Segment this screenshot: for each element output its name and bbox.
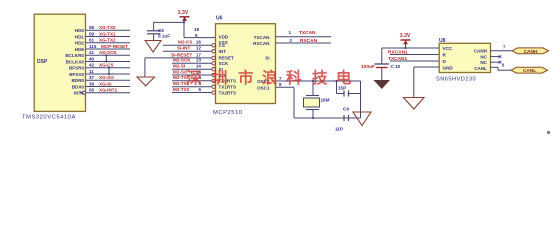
svg-text:MCP2510: MCP2510 bbox=[213, 110, 243, 116]
svg-text:HD0: HD0 bbox=[75, 28, 85, 33]
wire DSP pin BCLKR0 stub / net AD-SCK bbox=[86, 50, 131, 55]
svg-text:浪: 浪 bbox=[262, 68, 278, 87]
ground (under C6, open triangle) bbox=[145, 41, 161, 53]
svg-text:BCLKR0: BCLKR0 bbox=[65, 53, 84, 58]
svg-text:CANH: CANH bbox=[474, 48, 488, 53]
svg-text:XG-TX2: XG-TX2 bbox=[99, 38, 116, 43]
svg-text:INT1: INT1 bbox=[74, 91, 84, 96]
svg-text:RXCAN1: RXCAN1 bbox=[388, 49, 408, 55]
svg-text:3.3V: 3.3V bbox=[178, 10, 189, 16]
capacitor C10 100uF bbox=[375, 48, 390, 80]
svg-text:圳: 圳 bbox=[212, 69, 228, 87]
wire D net TXCAN1 bbox=[390, 60, 439, 62]
wire U6 SI-RESET stub bbox=[145, 52, 212, 58]
svg-text:M2-SCK: M2-SCK bbox=[173, 58, 191, 63]
wire CANH bbox=[491, 50, 513, 52]
svg-text:BFSX0: BFSX0 bbox=[69, 72, 84, 77]
net label RXCAN1 bbox=[388, 49, 408, 55]
svg-text:0.1uF: 0.1uF bbox=[158, 34, 170, 39]
IC U6 MCP2510 box bbox=[216, 24, 276, 104]
svg-text:37: 37 bbox=[89, 75, 95, 80]
svg-text:HD2: HD2 bbox=[75, 41, 85, 46]
wire C6 top rail bbox=[154, 21, 184, 23]
svg-text:8: 8 bbox=[279, 82, 282, 87]
wire RESET drop to ground bbox=[144, 58, 146, 77]
svg-text:11P: 11P bbox=[335, 127, 343, 132]
svg-text:59: 59 bbox=[89, 31, 95, 36]
wire DSP pin HD0 stub / net XG-TX0 bbox=[86, 25, 131, 30]
wire U6 M2-CS stub bbox=[163, 40, 212, 46]
svg-text:C6: C6 bbox=[158, 28, 164, 33]
wire CANL bbox=[491, 67, 512, 70]
wire tie BFSR0-BFSX0 bbox=[108, 67, 110, 76]
wire tie BCLKR0-BCLKX0 bbox=[105, 54, 107, 63]
capacitor C6 bbox=[147, 22, 161, 40]
U8 pin names bbox=[443, 46, 488, 71]
C6 designator bbox=[158, 28, 164, 33]
svg-text:DSP: DSP bbox=[37, 59, 48, 65]
svg-text:6: 6 bbox=[502, 62, 505, 67]
svg-text:115: 115 bbox=[89, 44, 97, 49]
ground (U8, open triangle) bbox=[404, 98, 425, 110]
wire U6 M2-TX2 stub bbox=[172, 87, 212, 93]
svg-text:SI-RESET: SI-RESET bbox=[171, 52, 192, 57]
svg-text:TXCAN: TXCAN bbox=[254, 35, 271, 40]
svg-text:CANL: CANL bbox=[523, 68, 536, 74]
svg-text:U8: U8 bbox=[439, 38, 446, 44]
svg-text:61: 61 bbox=[89, 38, 95, 43]
wire DSP pin BFSR0 stub / net XG-CS bbox=[86, 63, 131, 68]
wire U6 M2-SO stub bbox=[172, 69, 212, 75]
svg-text:C9: C9 bbox=[343, 107, 349, 112]
svg-text:CS: CS bbox=[219, 43, 225, 48]
svg-text:16M: 16M bbox=[321, 98, 330, 103]
wire osc bottom rail bbox=[294, 117, 361, 119]
svg-text:XG-CS: XG-CS bbox=[99, 63, 114, 68]
wire RXCAN (U6 pin 2) bbox=[276, 42, 332, 44]
svg-text:9: 9 bbox=[195, 33, 198, 38]
pin number 2 bbox=[290, 38, 293, 43]
svg-text:RXCAN: RXCAN bbox=[253, 41, 270, 46]
wire R net RXCAN1 bbox=[390, 54, 439, 56]
svg-text:RXCAN: RXCAN bbox=[300, 38, 318, 44]
wire DSP pin BDR0 stub / net XG-SO bbox=[86, 75, 131, 80]
wire OSC2 rail bbox=[276, 80, 361, 82]
U1 label DSP bbox=[37, 59, 48, 65]
svg-text:CANH: CANH bbox=[524, 49, 538, 55]
power 3.3V symbol (right) bbox=[401, 40, 411, 44]
wire DSP pin BCLKX0 stub / net tied bbox=[86, 56, 131, 61]
U1 pin names HD0-INT1 bbox=[65, 28, 84, 96]
svg-text:41: 41 bbox=[89, 50, 95, 55]
svg-text:TXCAN: TXCAN bbox=[299, 30, 316, 36]
pin number 1 bbox=[289, 30, 292, 35]
U1 INT1 input arrow bbox=[81, 91, 86, 95]
svg-text:18: 18 bbox=[194, 27, 200, 32]
crystal Y1 16M bbox=[304, 80, 320, 119]
svg-text:42: 42 bbox=[89, 63, 95, 68]
svg-text:U6: U6 bbox=[216, 16, 223, 22]
C10 designator bbox=[391, 64, 401, 69]
U8 NC stub 2 bbox=[491, 61, 502, 64]
svg-text:SN65HVD230: SN65HVD230 bbox=[436, 77, 476, 83]
svg-text:GND: GND bbox=[443, 65, 454, 70]
wire U6 SI-INT stub bbox=[163, 46, 212, 52]
wire OSC1 stub bbox=[276, 87, 295, 118]
svg-text:XG-TX1: XG-TX1 bbox=[99, 31, 116, 36]
svg-text:CANL: CANL bbox=[474, 66, 487, 71]
svg-text:17: 17 bbox=[196, 52, 202, 57]
svg-text:SCK: SCK bbox=[219, 61, 229, 66]
pin number 9 (VSS) bbox=[195, 33, 198, 38]
wire U6 M2-TX0 stub bbox=[172, 75, 212, 81]
power 3.3V label (left) bbox=[178, 10, 189, 16]
svg-text:XG-TX0: XG-TX0 bbox=[99, 25, 116, 30]
svg-text:BDR0: BDR0 bbox=[71, 78, 84, 83]
svg-text:NC: NC bbox=[480, 60, 487, 65]
svg-text:C 10: C 10 bbox=[391, 64, 401, 69]
capacitor C9 11P bbox=[344, 115, 349, 121]
svg-text:TX2RTS: TX2RTS bbox=[219, 90, 237, 95]
wire DSP pin HD6 stub / net MCP-RESET bbox=[86, 44, 131, 49]
U1 part name TMS320VC5410A bbox=[22, 115, 76, 121]
pin number 18 (VDD) bbox=[194, 27, 200, 32]
svg-text:7: 7 bbox=[503, 44, 506, 49]
U6 active-low pin bubbles bbox=[212, 44, 215, 95]
wire DSP pin HD1 stub / net XG-TX1 bbox=[86, 31, 131, 36]
svg-text:VCC: VCC bbox=[443, 46, 453, 51]
capacitor C8 15P bbox=[335, 80, 360, 97]
svg-text:HD6: HD6 bbox=[75, 47, 85, 52]
svg-text:M2-CS: M2-CS bbox=[178, 40, 192, 45]
C10 value 100uF bbox=[361, 64, 375, 70]
svg-text:INT: INT bbox=[219, 49, 227, 54]
IC U1 DSP TMS320VC5410A box bbox=[34, 14, 85, 111]
svg-text:NC: NC bbox=[480, 54, 487, 59]
svg-text:3.3V: 3.3V bbox=[400, 33, 411, 39]
svg-text:13: 13 bbox=[196, 58, 202, 63]
svg-text:BDX0: BDX0 bbox=[72, 84, 85, 89]
svg-text:16: 16 bbox=[196, 40, 202, 45]
U6 pin names bbox=[219, 34, 271, 95]
wire DSP pin BFSX0 stub / net tied bbox=[86, 69, 131, 74]
ground (mid, open triangle) bbox=[137, 77, 155, 86]
connector lug CANH bbox=[512, 48, 549, 55]
wire VCC rail bbox=[382, 41, 439, 50]
wire U6 M2-TX1 stub bbox=[172, 81, 212, 87]
svg-text:6: 6 bbox=[198, 87, 201, 92]
wire U8 GND to ground bbox=[414, 67, 439, 98]
IC U8 SN65HVD230 box bbox=[439, 43, 490, 72]
wire DSP pin BDX0 stub / net XG-SI bbox=[86, 81, 131, 86]
wire U6 M2-SI stub bbox=[172, 64, 212, 70]
svg-text:2: 2 bbox=[290, 38, 293, 43]
svg-text:MCP-RESET: MCP-RESET bbox=[101, 44, 128, 49]
power 3.3V symbol (left) bbox=[180, 17, 190, 21]
U6 part name MCP2510 bbox=[213, 110, 243, 116]
svg-text:TMS320VC5410A: TMS320VC5410A bbox=[22, 115, 76, 121]
svg-text:深: 深 bbox=[186, 69, 202, 87]
wire 3.3V stem to VDD bbox=[183, 17, 216, 38]
svg-text:技: 技 bbox=[312, 68, 328, 87]
U8 NC stub 1 bbox=[491, 55, 502, 58]
net label RXCAN bbox=[300, 38, 318, 44]
svg-text:RESET: RESET bbox=[219, 56, 235, 61]
svg-text:12: 12 bbox=[196, 46, 202, 51]
wire TXCAN (U6 pin 1) bbox=[276, 36, 332, 38]
svg-text:100uF: 100uF bbox=[361, 64, 375, 70]
U8 designator bbox=[439, 38, 446, 44]
C8 value 15P bbox=[338, 86, 346, 91]
svg-text:XG-SI: XG-SI bbox=[99, 81, 112, 86]
svg-text:SI: SI bbox=[265, 56, 269, 61]
wire DSP pin INT1 stub / net XG-INT1 bbox=[86, 88, 131, 93]
svg-text:AD-SCK: AD-SCK bbox=[99, 50, 118, 55]
pin mark 7 (CANH) bbox=[503, 44, 506, 49]
svg-text:40: 40 bbox=[89, 56, 95, 61]
wire osc right rail bbox=[360, 81, 362, 118]
connector lug CANL bbox=[511, 67, 548, 74]
crystal value 16M bbox=[321, 98, 330, 103]
svg-text:市: 市 bbox=[238, 68, 254, 87]
page mark (bottom right) bbox=[547, 131, 550, 134]
power 3.3V label (right) bbox=[400, 33, 411, 39]
wire DSP pin HD2 stub / net XG-TX2 bbox=[86, 38, 131, 43]
svg-text:39: 39 bbox=[89, 81, 95, 86]
ground (osc, open triangle) bbox=[353, 112, 371, 126]
svg-text:电: 电 bbox=[336, 68, 352, 87]
svg-text:SI-INT: SI-INT bbox=[177, 46, 190, 51]
svg-text:58: 58 bbox=[89, 25, 95, 30]
svg-text:M2-TX2: M2-TX2 bbox=[173, 87, 190, 92]
red watermark overlay bbox=[186, 68, 352, 87]
C9 designator bbox=[343, 107, 349, 112]
svg-text:XG-SO: XG-SO bbox=[99, 75, 114, 80]
svg-text:14: 14 bbox=[196, 64, 202, 69]
svg-text:7: 7 bbox=[279, 76, 282, 81]
U8 part name SN65HVD230 bbox=[436, 77, 476, 83]
ground (under C10) bbox=[374, 80, 391, 89]
svg-text:BCLKX0: BCLKX0 bbox=[66, 59, 85, 64]
net label TXCAN bbox=[299, 30, 316, 36]
svg-text:XG-INT1: XG-INT1 bbox=[99, 88, 118, 93]
C6 value 0.1uF bbox=[158, 34, 170, 39]
C9 value 11P bbox=[335, 127, 343, 132]
pin mark 6 (CANL) bbox=[502, 62, 505, 67]
wire U6 M2-SCK stub bbox=[172, 58, 212, 64]
pin number 8 bbox=[279, 82, 282, 87]
svg-text:科: 科 bbox=[286, 68, 302, 87]
svg-text:HD1: HD1 bbox=[75, 34, 85, 39]
svg-text:TXCAN1: TXCAN1 bbox=[388, 56, 408, 62]
svg-text:VDD: VDD bbox=[219, 34, 229, 39]
svg-text:BFSR0: BFSR0 bbox=[69, 66, 85, 71]
U6 designator bbox=[216, 16, 223, 22]
svg-text:65: 65 bbox=[89, 88, 95, 93]
svg-text:M2-SI: M2-SI bbox=[173, 64, 185, 69]
svg-text:11: 11 bbox=[89, 69, 94, 74]
svg-text:1: 1 bbox=[289, 30, 292, 35]
net label TXCAN1 bbox=[388, 56, 408, 62]
pin number 7 bbox=[279, 76, 282, 81]
